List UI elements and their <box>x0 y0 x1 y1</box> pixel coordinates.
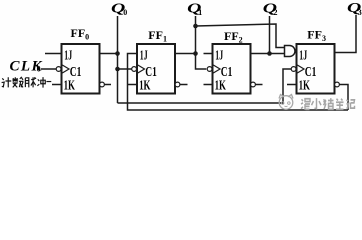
C1 bubble FF2 <box>207 67 212 72</box>
svg-text:1K: 1K <box>139 78 150 93</box>
1K stub FF2 <box>204 84 213 86</box>
flip-flop FF0 box <box>62 44 100 94</box>
wire FF3 Qbar feedback down <box>340 85 349 111</box>
wire rail2 feedback to FF1 1J <box>128 54 349 111</box>
watermark text 滑小猫笔记 <box>301 98 355 110</box>
AND gate G1 <box>285 46 296 57</box>
脉 <box>25 78 28 88</box>
1K stub FF1 <box>128 84 138 86</box>
Qbar stub FF0 <box>105 84 112 86</box>
flip-flop FF1 box <box>137 44 175 94</box>
watermark cat icon <box>279 95 293 110</box>
小 <box>312 98 322 109</box>
Qbar bubble FF3 <box>335 82 340 87</box>
wire rail1 Q0 to FF3 clock <box>118 69 292 103</box>
svg-text:1J: 1J <box>299 48 307 63</box>
C1 bubble FF3 <box>291 67 296 72</box>
dash after 计数脉冲 <box>46 81 51 83</box>
svg-text:1K: 1K <box>299 78 310 93</box>
1K stub FF3 <box>287 84 297 86</box>
Qbar bubble FF1 <box>175 82 180 87</box>
Qbar bubble FF0 <box>100 82 105 87</box>
svg-text:0: 0 <box>123 8 127 17</box>
svg-text:1: 1 <box>198 8 202 17</box>
wire Q0 vertical <box>117 16 119 103</box>
node dot Q2 junction <box>267 51 272 56</box>
svg-text:0: 0 <box>37 65 41 74</box>
冲 <box>37 79 39 85</box>
C1 dynamic triangle FF0 <box>62 65 69 73</box>
wire Q1 vertical and to FF2 C1 <box>196 16 207 69</box>
flip-flop FF3 box <box>297 44 335 94</box>
猫 <box>324 99 327 109</box>
wire Q0 to FF1 C1 <box>118 68 132 70</box>
记 <box>347 100 349 108</box>
1K stub FF0 <box>52 84 62 86</box>
滑 <box>301 99 303 108</box>
flip-flop FF2 box <box>213 44 251 94</box>
C1 bubble FF1 <box>132 67 137 72</box>
wire FF3.Q to Q3 node <box>335 15 357 53</box>
1J stub FF2 <box>204 53 213 55</box>
C1 dynamic triangle FF3 <box>297 65 304 73</box>
svg-text:1J: 1J <box>64 48 72 63</box>
Qbar bubble FF2 <box>251 82 256 87</box>
svg-text:1K: 1K <box>64 78 75 93</box>
C1 bubble FF0 <box>56 67 61 72</box>
1J stub FF0 <box>45 53 62 55</box>
笔 <box>336 99 344 110</box>
wire FF2.Q to AND gate bottom input <box>251 53 285 55</box>
C1 dynamic triangle FF2 <box>213 65 220 73</box>
CLK input wire <box>41 68 56 70</box>
node dot Q0-C1 junction <box>115 67 120 72</box>
svg-text:3: 3 <box>358 8 362 17</box>
Qbar stub FF2 <box>256 84 263 86</box>
wire FF0.Q to Q0 node <box>100 53 118 55</box>
wire FF1.Q to Q1 node <box>175 53 196 55</box>
svg-text:1K: 1K <box>215 78 226 93</box>
svg-text:FF2: FF2 <box>224 29 243 45</box>
wire AND output to FF3 1J <box>295 50 297 52</box>
C1 dynamic triangle FF1 <box>138 65 145 73</box>
svg-text:2: 2 <box>274 8 278 17</box>
wire Q1 to AND gate top input <box>196 24 285 48</box>
node dot FF0.Q junction <box>115 51 120 56</box>
svg-text:1J: 1J <box>215 48 223 63</box>
svg-text:1J: 1J <box>140 48 148 63</box>
label 计数脉冲 (drawn strokes) <box>2 77 52 88</box>
node dot FF1.Q junction <box>193 51 198 56</box>
svg-text:FF3: FF3 <box>307 28 326 44</box>
计 <box>2 78 5 86</box>
node dot Q1 top junction <box>193 24 198 29</box>
svg-text:FF1: FF1 <box>148 28 167 44</box>
Qbar stub FF1 <box>180 84 188 86</box>
wire Q2 vertical <box>269 16 271 54</box>
数 <box>12 77 18 81</box>
svg-text:FF0: FF0 <box>71 26 90 42</box>
